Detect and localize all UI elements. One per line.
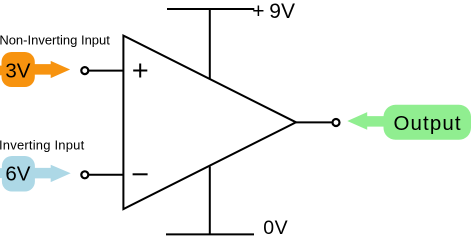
6V source arrow pointing to inverting input <box>35 165 71 182</box>
op-amp non-inverting input plus symbol <box>133 64 147 78</box>
op-amp inverting input minus symbol <box>133 173 148 175</box>
svg-text:6V: 6V <box>5 163 30 186</box>
Output callout box <box>384 105 472 140</box>
+9V power rail horizontal wire <box>167 8 254 10</box>
wire from op-amp apex to output terminal <box>296 121 333 123</box>
svg-text:Output: Output <box>394 112 462 135</box>
0V power rail horizontal wire <box>166 233 254 235</box>
svg-text:+9V: +9V <box>252 0 295 23</box>
non-inverting input terminal node <box>81 67 88 74</box>
Output arrow pointing to output terminal <box>347 112 385 130</box>
output terminal node <box>333 119 340 126</box>
wire from +9V rail to op-amp top edge <box>209 9 211 79</box>
svg-text:Inverting Input: Inverting Input <box>0 138 85 153</box>
3V source arrow pointing to non-inverting input <box>35 61 71 78</box>
wire from op-amp bottom edge to 0V rail <box>209 167 211 235</box>
op-amp U1 triangle body <box>123 36 296 210</box>
6V source callout box <box>0 156 35 192</box>
wire from non-inverting input terminal to op-amp <box>88 70 123 72</box>
inverting input terminal node <box>81 171 88 178</box>
svg-text:0V: 0V <box>263 217 288 239</box>
wire from inverting input terminal to op-amp <box>88 174 123 176</box>
3V source callout box <box>0 52 35 87</box>
svg-text:3V: 3V <box>5 60 30 83</box>
svg-text:Non-Inverting Input: Non-Inverting Input <box>0 32 110 47</box>
